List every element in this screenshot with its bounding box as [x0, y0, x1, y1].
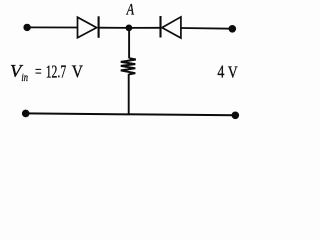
svg-text:=: =: [35, 62, 42, 82]
diode D2 (pointing left, cathode left): [161, 16, 181, 38]
node A junction dot: [125, 25, 132, 32]
wire: resistor bottom to bottom rail: [128, 74, 130, 115]
diode D1 (pointing right, anode left): [78, 16, 99, 38]
wire: node A down to resistor top: [128, 28, 130, 59]
bottom rail wire: [26, 113, 236, 115]
svg-text:V: V: [72, 62, 84, 82]
resistor R1 (vertical zigzag): [121, 58, 136, 74]
wire: D1 cathode to node A: [99, 27, 129, 29]
svg-text:4: 4: [217, 62, 224, 82]
wire: top-left terminal to diode D1 anode: [27, 26, 77, 28]
wire: D2 anode to top-right terminal: [181, 27, 232, 30]
terminal dot top-right: [229, 25, 237, 33]
wire: node A to diode D2 cathode: [129, 27, 161, 29]
svg-text:12.7: 12.7: [46, 62, 67, 82]
terminal dot top-left: [23, 24, 30, 31]
svg-text:A: A: [126, 2, 134, 19]
svg-text:V: V: [228, 63, 238, 82]
terminal dot bottom-right: [232, 112, 240, 120]
svg-text:in: in: [21, 70, 28, 84]
terminal dot bottom-left: [22, 110, 30, 118]
